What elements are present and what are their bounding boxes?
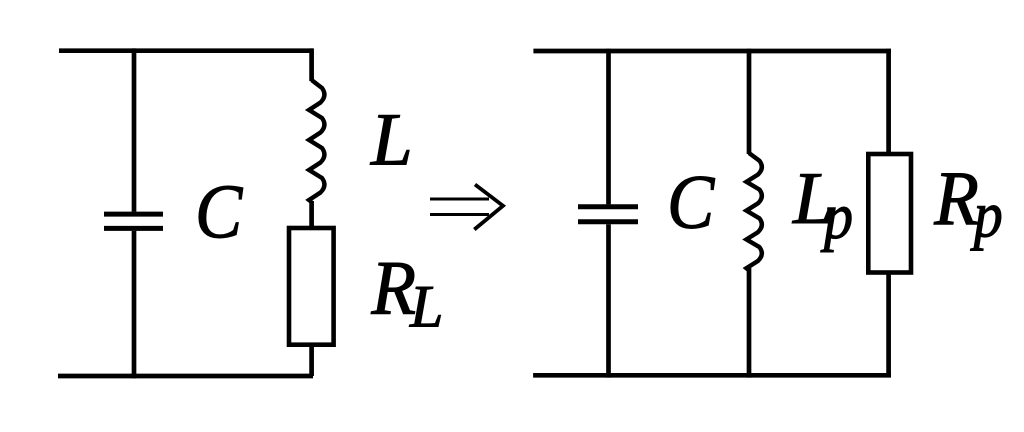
resistor Rp box (868, 154, 911, 273)
wire right branch upper (309, 48, 314, 81)
wire capacitor branch lower (132, 231, 137, 379)
wire capacitor branch upper (right) (606, 49, 611, 205)
svg-text:p: p (970, 179, 1003, 251)
inductor Lp coil (746, 153, 761, 270)
wire resistor branch lower (right) (886, 273, 891, 376)
wire inductor branch lower (right) (747, 268, 752, 378)
wire resistor branch upper (right) (886, 49, 891, 153)
svg-text:L: L (409, 274, 443, 340)
svg-text:p: p (820, 181, 853, 253)
wire capacitor branch upper (132, 48, 137, 211)
capacitor C2 plates (578, 204, 638, 209)
wire top (right circuit) (533, 49, 891, 54)
wire capacitor branch lower (right) (606, 224, 611, 377)
wire resistor to bottom (309, 345, 314, 376)
svg-text:C: C (667, 160, 716, 245)
arrow bars (430, 198, 489, 201)
svg-text:C: C (195, 170, 244, 255)
svg-text:L: L (370, 99, 413, 182)
wire inductor branch upper (right) (747, 49, 752, 154)
capacitor C1 plates (104, 212, 163, 217)
resistor RL box (289, 228, 334, 345)
wire coil to resistor (309, 201, 314, 229)
svg-text:R: R (933, 156, 979, 241)
inductor L coil (309, 80, 324, 202)
wire top (left circuit) (59, 48, 313, 53)
arrow chevron (474, 185, 503, 230)
wire bottom (right circuit) (533, 373, 891, 378)
wire bottom (left circuit) (58, 374, 313, 379)
